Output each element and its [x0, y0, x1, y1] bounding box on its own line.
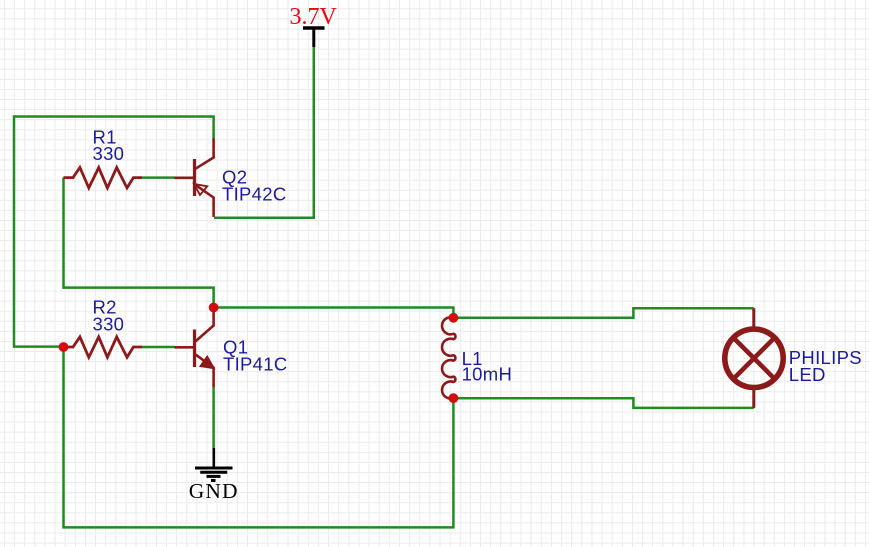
wire L1 bottom to lamp bottom [453, 398, 753, 408]
wire top-left loop: Q2 collector to node A [14, 117, 214, 347]
transistor Q2 (PNP TIP42C) [175, 138, 287, 217]
wire L1 top to lamp top [453, 308, 753, 318]
svg-text:GND: GND [189, 479, 239, 503]
svg-text:3.7V: 3.7V [290, 4, 338, 30]
inductor L1 [442, 317, 512, 398]
transistor Q1 (NPN TIP41C) [175, 308, 288, 388]
svg-text:LED: LED [789, 364, 826, 385]
junction Q1 collector node [209, 303, 219, 313]
junction L1 top node [449, 313, 459, 323]
svg-text:330: 330 [93, 313, 125, 334]
junction node A [59, 342, 69, 352]
wire R2 right to Q1 base [142, 346, 176, 349]
resistor R2 [63, 296, 142, 357]
junction L1 bottom node [449, 393, 459, 403]
wire R1 left lead down to Q1 collector node [64, 178, 214, 306]
power symbol 3.7V [290, 4, 338, 47]
wire R1 right to Q2 base [142, 176, 176, 179]
wire Q1 collector node to L1 top [214, 308, 454, 318]
ground [189, 448, 239, 503]
wire Q2 emitter to 3.7V rail [214, 47, 314, 218]
wire Q1 emitter to GND [212, 388, 215, 449]
svg-text:TIP41C: TIP41C [223, 354, 288, 375]
resistor R1 [63, 126, 142, 188]
svg-text:TIP42C: TIP42C [222, 184, 287, 205]
lamp PHILIPS LED [725, 308, 862, 408]
svg-text:10mH: 10mH [462, 364, 513, 385]
svg-text:330: 330 [93, 143, 125, 164]
wire node A down, bottom rail, up to L1 bottom [64, 347, 454, 527]
